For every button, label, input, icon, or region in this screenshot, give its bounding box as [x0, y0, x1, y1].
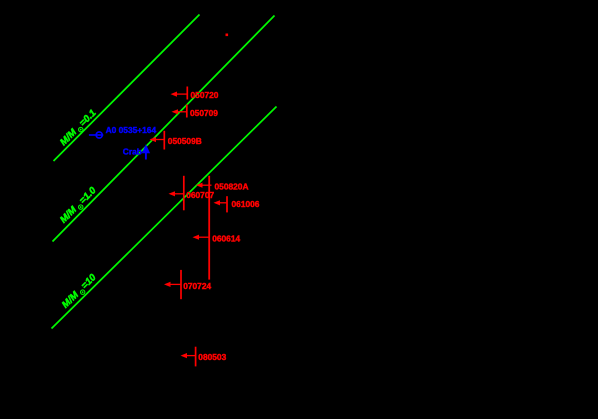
blue Crab pulsar: label and up arrow — [123, 144, 150, 159]
svg-text:060707: 060707 — [186, 190, 214, 200]
GRB 060614 arrow and label — [193, 234, 241, 244]
svg-text:061006: 061006 — [232, 199, 260, 209]
GRB 070724 point: error bar, left arrow, label — [164, 270, 211, 299]
svg-text:Crab: Crab — [123, 147, 142, 157]
svg-text:050709: 050709 — [190, 108, 218, 118]
GRB 050820A long error bar — [208, 176, 210, 280]
svg-text:080503: 080503 — [198, 352, 226, 362]
svg-text:070724: 070724 — [183, 281, 211, 291]
GRB 060707 point: error bar, left arrow, label — [169, 176, 215, 211]
green line label M/M=10 — [60, 272, 99, 311]
svg-text:060614: 060614 — [212, 234, 240, 244]
GRB 061006 point: error bar, left arrow, label — [214, 196, 260, 212]
GRB 050720 point: left arrow, error bar, label — [171, 87, 219, 101]
green mass line M/M=10 — [52, 107, 277, 329]
svg-text:050820A: 050820A — [215, 182, 249, 192]
GRB 050709 point: left arrow, error bar, label — [172, 105, 219, 118]
green line label M/M=1.0 — [58, 185, 99, 226]
svg-text:A0 0535+164: A0 0535+164 — [106, 125, 157, 135]
green mass line M/M=0.1 — [54, 15, 200, 162]
svg-text:050509B: 050509B — [168, 136, 202, 146]
green mass line M/M=1.0 — [53, 16, 275, 242]
GRB 050509B point: left arrow, error bar, label — [150, 131, 202, 150]
GRB 050820A arrow and label — [196, 182, 249, 192]
green line label M/M=0.1 — [58, 108, 98, 148]
svg-text:050720: 050720 — [191, 90, 219, 100]
stray red dot — [226, 34, 229, 37]
blue X-ray binary A0 0535+164: error bar, circle marker, label — [89, 125, 157, 138]
GRB 080503 point: error bar, left arrow, label — [181, 347, 227, 367]
